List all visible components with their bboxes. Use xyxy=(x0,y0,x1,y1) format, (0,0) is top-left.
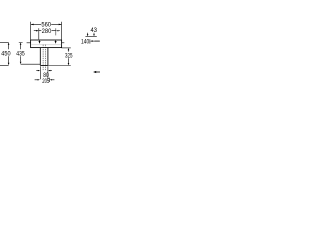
dim 280 ext line right xyxy=(55,28,57,35)
arrowhead 43 left (down) xyxy=(87,34,89,36)
dim 43 ext/arrow stem left xyxy=(87,33,89,35)
arrowhead mounting right (down) xyxy=(55,41,57,44)
dim 205 ext stub right xyxy=(49,78,51,82)
arrowhead 80 right (outside, pointing left) xyxy=(48,70,50,71)
dim 280 outside arrow tail right xyxy=(57,30,60,32)
hidden drain line left xyxy=(42,45,44,71)
basin interior front edge (faint) xyxy=(31,44,61,46)
mounting hole leader arrow stem right xyxy=(55,40,57,41)
dim 80 outside arrow tails xyxy=(36,70,52,72)
dim 280 outside arrow tail left xyxy=(34,30,37,32)
dim 280 line stubs xyxy=(39,30,56,32)
arrowhead mounting left (down) xyxy=(39,41,41,44)
dim 560 line xyxy=(31,23,61,25)
dim 140 ext line xyxy=(89,39,91,43)
annotation arrow tail right edge xyxy=(96,71,100,74)
dim 43 ext/arrow stem right xyxy=(93,33,95,35)
mounting hole leader arrow stem left xyxy=(39,40,41,41)
dim 80 ext line right xyxy=(47,66,49,79)
arrowhead 80 left (outside, pointing right) xyxy=(38,70,40,71)
basin body outline xyxy=(31,40,62,48)
arrowhead 280 right (outside, pointing left) xyxy=(56,30,59,32)
arrowhead 450 top (up) xyxy=(8,42,10,44)
svg-text:140: 140 xyxy=(81,38,89,45)
dim 435 ext line bottom xyxy=(21,63,41,65)
mounting level stub right of basin xyxy=(62,42,65,44)
arrowhead 435 top (up) xyxy=(20,42,22,44)
dim 560 ext line left xyxy=(30,22,32,40)
arrowhead 43 right (down) xyxy=(93,34,95,36)
dim 435 vertical line xyxy=(20,44,22,62)
dim 450 vertical line xyxy=(8,44,10,63)
arrowhead 280 left (outside, pointing right) xyxy=(36,30,39,32)
svg-text:43: 43 xyxy=(91,27,98,34)
dim 560 ext line right xyxy=(61,22,63,40)
arrowhead edge annotation (pointing left, right border) xyxy=(93,71,96,73)
hidden drain line right xyxy=(44,45,46,71)
dim 205 outside arrow tails xyxy=(35,79,55,81)
pedestal stem outline xyxy=(40,48,48,66)
arrowhead 560 left xyxy=(31,24,34,26)
arrowhead 560 right xyxy=(59,24,62,26)
svg-text:435: 435 xyxy=(16,50,25,57)
dim 80 ext line left xyxy=(39,66,41,79)
dim 140 line from right edge xyxy=(93,40,100,42)
dim 325 vertical line xyxy=(68,50,70,64)
dim 325 ext line top xyxy=(62,47,71,49)
dim 325 ext line bottom xyxy=(48,65,71,67)
dim 450 ext line bottom xyxy=(0,64,9,66)
level line L1 right detail xyxy=(85,35,96,37)
svg-text:325: 325 xyxy=(65,52,73,59)
svg-text:280: 280 xyxy=(42,28,52,35)
level line L2 right detail xyxy=(95,40,100,42)
dim 435 ext line top stubs xyxy=(19,42,31,44)
arrowhead 325 bottom (down) xyxy=(68,63,70,65)
arrowhead 205 left (outside, pointing right) xyxy=(38,79,40,80)
arrowhead 205 right (outside, pointing left) xyxy=(50,79,52,80)
svg-text:450: 450 xyxy=(1,50,11,57)
arrowhead 325 top (up) xyxy=(68,48,70,50)
dim 450 ext line top (to wall left) xyxy=(0,42,9,44)
arrowhead 140 (pointing left at ext line) xyxy=(90,40,93,42)
arrowhead 450 bottom (down) xyxy=(8,63,10,65)
svg-text:205: 205 xyxy=(42,78,49,85)
dim 280 ext line left xyxy=(38,28,40,39)
arrowhead 435 bottom (down) xyxy=(20,62,22,64)
